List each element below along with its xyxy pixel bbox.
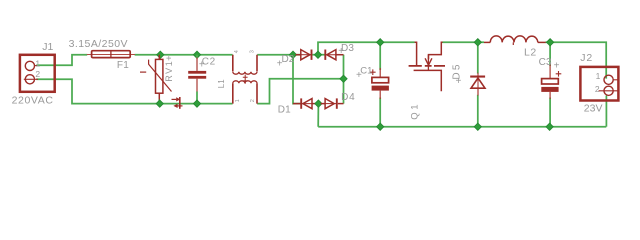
svg-text:3: 3 <box>250 50 256 53</box>
junction: bridge AC1 node <box>289 51 296 58</box>
svg-text:F1: F1 <box>117 60 129 71</box>
wire: C1 branch from top rail <box>379 42 381 70</box>
svg-text:2: 2 <box>595 84 600 94</box>
junction: C2 top on upper wire <box>193 51 200 58</box>
svg-text:J2: J2 <box>580 52 593 64</box>
wire: bottom rail (DC- / GND return) <box>318 126 606 128</box>
wire: J1 pin1 to fuse (upper left net) <box>36 55 87 66</box>
svg-text:+: + <box>456 76 462 87</box>
wire: D5 branch from top rail <box>477 42 479 73</box>
wire: bridge AC1 column (L1 out down to D1 cathode) <box>293 55 300 104</box>
connector J1 <box>20 55 55 92</box>
zener diode D5 <box>470 73 485 96</box>
svg-text:D4: D4 <box>341 92 355 103</box>
svg-text:+: + <box>554 61 560 72</box>
wire: D2 cathode to D3 cathode (node DC+) <box>313 54 325 56</box>
svg-text:L2: L2 <box>524 46 537 58</box>
svg-text:2: 2 <box>250 99 256 102</box>
junction: bridge DC+ node <box>314 51 321 58</box>
inductor L2 <box>484 36 546 45</box>
diode D1 <box>293 98 316 108</box>
wire: bridge AC2 column (D3 anode down to D4 cathode) <box>343 55 345 104</box>
junction: top rail / C3 <box>546 39 553 46</box>
junction: C2 bottom on lower wire <box>193 100 200 107</box>
junction: top rail / D5 <box>474 39 481 46</box>
wire: L1 pin3 to bridge node AC1 <box>257 54 300 56</box>
svg-text:+: + <box>199 59 205 70</box>
svg-text:RV1: RV1 <box>164 60 174 82</box>
capacitor C1 (polarized) <box>372 68 389 99</box>
svg-text:3.15A/250V: 3.15A/250V <box>69 38 128 50</box>
fuse F1 <box>87 51 135 58</box>
capacitor C3 (polarized) <box>541 64 558 99</box>
wire: J1 pin2 lower net down and right to L1 pin1 <box>36 79 232 103</box>
svg-text:C3: C3 <box>539 57 552 68</box>
junction: AC2 joins L1 pin2 wire <box>340 75 347 82</box>
diode D2 <box>296 50 312 60</box>
svg-text:Q1: Q1 <box>409 102 420 120</box>
svg-text:L1: L1 <box>217 79 226 88</box>
svg-text:+: + <box>338 46 344 57</box>
wire: MOSFET source to L2 left lead <box>442 41 484 43</box>
svg-text:D2: D2 <box>282 54 295 65</box>
junction: bottom rail / C1 <box>377 123 384 130</box>
svg-text:2: 2 <box>35 69 40 79</box>
wire: fuse F1 right to L1 pin4, along y=54.7 <box>135 54 233 56</box>
svg-text:D1: D1 <box>278 105 291 116</box>
L1 polarity mark + (lower) <box>243 80 248 82</box>
junction: bottom rail / C3 <box>546 123 553 130</box>
wire: L2 right lead to J2 pin1 <box>546 42 607 78</box>
wire: bridge DC- node down to bottom rail <box>317 104 319 127</box>
varistor RV1 <box>140 55 172 100</box>
connector J2 <box>580 67 618 101</box>
svg-text:C1: C1 <box>360 66 372 77</box>
capacitor C2 <box>188 55 206 104</box>
svg-text:1: 1 <box>235 99 241 102</box>
common-mode choke L1 upper winding (pins 4-3) <box>233 55 257 75</box>
diode D3 <box>325 50 343 60</box>
junction: top rail / C1 <box>377 39 384 46</box>
MOSFET Q1 <box>409 42 445 91</box>
svg-text:23V: 23V <box>584 103 603 115</box>
svg-text:+: + <box>277 58 283 69</box>
wire: C3 bottom to bottom rail <box>549 98 551 127</box>
junction: fuse/RV1 node on upper wire <box>157 51 164 58</box>
junction: bridge DC- node <box>315 100 322 107</box>
common-mode choke L1 lower winding (pins 1-2) <box>233 81 257 104</box>
C3 polarity mark + (red) <box>556 71 562 77</box>
svg-text:220VAC: 220VAC <box>12 95 54 107</box>
wire: D5 anode to bottom rail <box>477 95 479 127</box>
wire: DC+ node up to top rail and right to MOSFET drain <box>318 42 415 54</box>
junction: RV1 on lower wire <box>156 100 163 107</box>
C1 polarity mark + (red) <box>370 69 376 75</box>
wire: RV1 bottom lead to lower net <box>158 100 160 104</box>
diode D4 <box>321 98 344 108</box>
wire: C3 branch from top rail <box>549 42 551 66</box>
L1 polarity mark + (upper) <box>243 75 248 84</box>
junction: bottom rail / D5 <box>474 123 481 130</box>
svg-text:4: 4 <box>234 50 240 53</box>
svg-text:1: 1 <box>596 71 601 81</box>
svg-text:+: + <box>164 56 174 61</box>
wire: L1 pin2 right, up, right to bridge AC2 column <box>257 79 343 104</box>
wire: C1 bottom to bottom rail <box>379 98 381 127</box>
svg-text:1: 1 <box>35 59 40 69</box>
surge arrester on lower wire <box>172 97 183 109</box>
svg-text:+: + <box>356 70 362 81</box>
svg-text:J1: J1 <box>42 41 53 53</box>
wire: J2 pin2 down to bottom rail <box>605 96 607 127</box>
